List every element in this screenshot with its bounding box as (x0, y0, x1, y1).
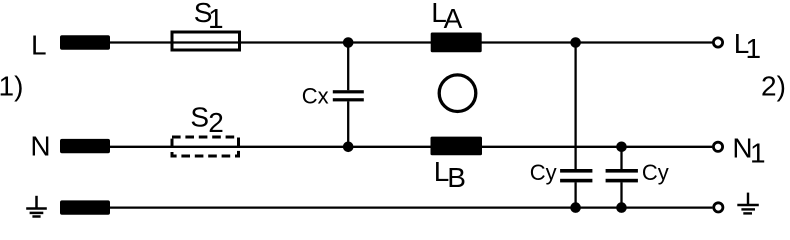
svg-text:L1: L1 (734, 28, 761, 64)
terminal L (input blade) (60, 35, 110, 49)
node junction N-Cx (343, 142, 354, 153)
svg-text:S2: S2 (190, 102, 223, 138)
svg-text:L: L (31, 29, 47, 60)
svg-text:N1: N1 (732, 133, 765, 169)
inductor LA winding (431, 33, 482, 53)
capacitor Cx vertical wire (347, 43, 349, 91)
terminal N (input blade) (60, 139, 110, 153)
capacitor Cy right vertical wire (620, 147, 622, 169)
svg-text:Cx: Cx (302, 83, 329, 108)
node junction PE-Cy right (616, 202, 627, 213)
terminal L1 (output circle) (713, 38, 722, 47)
terminal N1 (output circle) (713, 142, 722, 151)
node junction L-Cx (343, 37, 354, 48)
capacitor Cx plates (333, 90, 364, 93)
svg-text:2): 2) (761, 71, 786, 102)
svg-text:Cy: Cy (642, 160, 669, 185)
svg-text:N: N (30, 130, 50, 161)
ground left earth symbol (26, 196, 47, 217)
svg-text:1): 1) (0, 71, 23, 102)
capacitor Cy left plates (560, 169, 592, 173)
node junction PE-Cy left (570, 202, 581, 213)
svg-text:Cy: Cy (530, 160, 557, 185)
inductor LB winding (431, 137, 483, 156)
fuse S1 (172, 32, 240, 50)
terminal PE1 (output circle) (714, 203, 723, 212)
terminal PE (input blade) (60, 200, 110, 214)
node junction N-Cy (616, 142, 627, 153)
switch S2 (dashed enclosure) (172, 137, 239, 156)
capacitor Cy right plates (606, 169, 638, 173)
wire L line (phase conductor) (110, 41, 712, 43)
common-mode choke core circle (439, 75, 476, 112)
wire N line (neutral conductor) (110, 146, 712, 148)
wire PE ground line (110, 206, 712, 208)
node junction L-Cy (570, 37, 581, 48)
ground right earth symbol (737, 193, 759, 214)
capacitor Cy left vertical wire (574, 43, 576, 170)
